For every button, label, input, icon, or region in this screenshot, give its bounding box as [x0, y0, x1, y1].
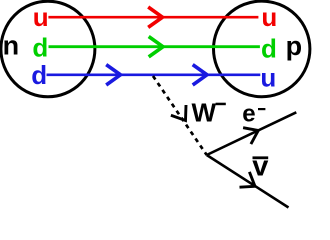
antineutrino line [207, 155, 289, 208]
svg-text:W: W [192, 98, 217, 128]
svg-text:u: u [33, 2, 49, 32]
arrowhead on antineutrino line [240, 172, 256, 187]
electron line e- [207, 112, 297, 155]
svg-text:p: p [286, 31, 303, 61]
proton circle p [214, 1, 310, 97]
arrowhead on red line [148, 7, 162, 27]
svg-text:v: v [252, 150, 268, 182]
superscript minus of e [258, 108, 265, 110]
overbar of nu [253, 156, 269, 159]
arrowhead on W- line [171, 105, 186, 121]
arrowhead 2 on blue line [193, 65, 207, 85]
arrowhead on electron line [243, 128, 258, 144]
svg-text:e: e [242, 100, 255, 127]
svg-text:n: n [3, 30, 20, 60]
W- boson dashed line [153, 76, 207, 155]
neutron circle n [1, 1, 95, 97]
superscript minus of W [216, 103, 226, 106]
arrowhead 1 on blue line [106, 65, 120, 85]
wire: blue quark line d to u [47, 74, 261, 77]
svg-text:d: d [261, 34, 277, 64]
svg-text:d: d [31, 60, 47, 90]
svg-text:u: u [261, 2, 277, 32]
svg-text:u: u [260, 62, 276, 92]
wire: green d quark line [49, 45, 260, 48]
svg-text:d: d [32, 33, 48, 63]
wire: red u quark line [48, 16, 258, 19]
arrowhead on green line [149, 37, 163, 57]
